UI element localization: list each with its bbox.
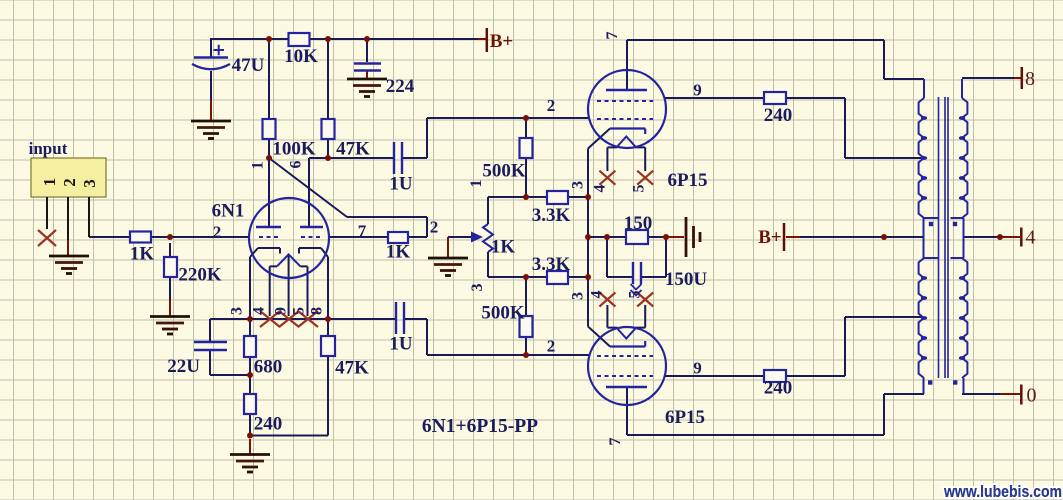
svg-text:4: 4 <box>250 307 267 315</box>
svg-text:22U: 22U <box>167 356 200 377</box>
svg-text:2: 2 <box>430 217 439 236</box>
svg-text:6: 6 <box>287 161 304 169</box>
svg-text:3.3K: 3.3K <box>532 254 571 275</box>
svg-text:B+: B+ <box>490 31 514 52</box>
svg-text:1K: 1K <box>491 236 516 257</box>
svg-text:6N1+6P15-PP: 6N1+6P15-PP <box>422 416 538 437</box>
svg-text:47U: 47U <box>232 55 265 76</box>
svg-text:5: 5 <box>630 185 647 193</box>
svg-text:3.3K: 3.3K <box>532 205 571 226</box>
svg-text:220K: 220K <box>178 264 222 285</box>
svg-text:500K: 500K <box>482 160 526 181</box>
svg-text:240: 240 <box>764 377 793 398</box>
svg-text:240: 240 <box>764 105 793 126</box>
svg-text:10K: 10K <box>284 46 318 67</box>
svg-text:1U: 1U <box>389 333 413 354</box>
svg-text:www.lubebis.com: www.lubebis.com <box>943 483 1062 500</box>
svg-text:2: 2 <box>547 336 556 355</box>
svg-text:240: 240 <box>254 413 283 434</box>
svg-text:2: 2 <box>60 178 79 187</box>
svg-text:500K: 500K <box>481 302 525 323</box>
svg-text:100K: 100K <box>272 138 316 159</box>
svg-text:6N1: 6N1 <box>212 200 245 221</box>
svg-text:B+: B+ <box>758 227 782 248</box>
svg-text:6P15: 6P15 <box>665 407 705 428</box>
svg-text:224: 224 <box>386 76 415 97</box>
svg-text:3: 3 <box>469 284 486 292</box>
svg-text:2: 2 <box>213 222 222 241</box>
svg-text:4: 4 <box>591 185 608 193</box>
svg-text:3: 3 <box>228 307 245 315</box>
svg-text:9: 9 <box>272 307 289 315</box>
svg-text:1K: 1K <box>130 243 155 264</box>
svg-text:8: 8 <box>308 307 325 315</box>
svg-text:3: 3 <box>569 292 586 300</box>
svg-text:7: 7 <box>358 221 367 240</box>
svg-text:680: 680 <box>254 356 283 377</box>
svg-text:5: 5 <box>626 291 643 299</box>
svg-text:3: 3 <box>80 179 99 188</box>
svg-text:1: 1 <box>40 178 59 187</box>
svg-text:8: 8 <box>1025 68 1035 90</box>
svg-text:47K: 47K <box>335 357 369 378</box>
svg-text:47K: 47K <box>336 138 370 159</box>
svg-text:5: 5 <box>290 307 307 315</box>
svg-text:1U: 1U <box>389 173 413 194</box>
svg-text:6P15: 6P15 <box>667 170 707 191</box>
svg-text:1: 1 <box>249 162 266 170</box>
svg-text:input: input <box>29 139 68 158</box>
svg-text:3: 3 <box>569 181 586 189</box>
svg-text:7: 7 <box>604 32 621 40</box>
svg-text:0: 0 <box>1027 384 1037 406</box>
svg-text:150: 150 <box>624 213 653 234</box>
svg-text:7: 7 <box>607 438 624 446</box>
svg-text:2: 2 <box>547 96 556 115</box>
svg-text:4: 4 <box>588 291 605 299</box>
svg-text:4: 4 <box>1026 226 1036 248</box>
svg-text:9: 9 <box>693 358 702 377</box>
svg-text:9: 9 <box>693 80 702 99</box>
svg-text:1K: 1K <box>386 241 411 262</box>
svg-text:150U: 150U <box>665 269 708 290</box>
